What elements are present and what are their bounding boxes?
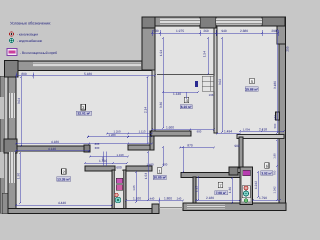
windows: top wall xyxy=(160,19,262,25)
room6 west wall xyxy=(239,137,243,168)
svg-text:162: 162 xyxy=(273,115,277,120)
windows: left wall xyxy=(9,93,15,183)
corridor south wall right xyxy=(126,166,152,171)
svg-text:15.88 м²: 15.88 м² xyxy=(245,87,259,91)
balcony door threshold xyxy=(159,207,183,209)
shaft1 left wall xyxy=(112,170,115,209)
pier top wall middle xyxy=(200,17,216,28)
room 2 area xyxy=(57,177,71,181)
shaft2 outer xyxy=(240,167,253,205)
wall room2/room3 left part xyxy=(16,146,89,151)
top wall xyxy=(142,17,285,26)
dim room7 vertical xyxy=(231,178,233,203)
dim shaft1 right vertical xyxy=(135,172,137,202)
dim top horizontal xyxy=(152,32,278,34)
room 7 number xyxy=(218,182,223,188)
svg-text:800: 800 xyxy=(21,72,27,76)
svg-text:1.113: 1.113 xyxy=(139,130,146,134)
svg-text:1.342: 1.342 xyxy=(273,186,277,193)
dim room3 vertical xyxy=(20,77,22,146)
svg-text:1.242: 1.242 xyxy=(254,181,258,189)
dim corridor small xyxy=(90,156,128,158)
dim bottom middle xyxy=(126,200,183,202)
svg-text:7.08 м²: 7.08 м² xyxy=(216,191,227,195)
svg-text:2.180: 2.180 xyxy=(206,196,214,200)
wall band between room3 and room4 top xyxy=(142,17,155,70)
svg-text:1.140: 1.140 xyxy=(173,92,181,96)
svg-text:500: 500 xyxy=(273,123,277,128)
svg-text:1.94: 1.94 xyxy=(159,50,163,56)
vent box 2 shaft1 xyxy=(116,185,123,191)
svg-text:3.92 м²: 3.92 м² xyxy=(261,171,272,175)
room 3 area xyxy=(76,111,92,115)
dim room1 vertical x163 xyxy=(162,147,164,166)
partition room4/room5 xyxy=(214,26,217,133)
svg-text:- Вентиляционный короб: - Вентиляционный короб xyxy=(20,51,57,55)
svg-text:- водоснабжение: - водоснабжение xyxy=(17,39,42,43)
room7 north wall xyxy=(181,173,240,178)
svg-text:900: 900 xyxy=(197,129,202,133)
window: room3 top wall xyxy=(33,63,141,68)
shaft2 interior xyxy=(242,170,251,202)
panel box room4 xyxy=(195,81,198,87)
svg-text:1.480: 1.480 xyxy=(147,163,154,167)
water circle shaft2 xyxy=(243,191,248,196)
dim room2 vertical xyxy=(19,153,21,203)
svg-text:700: 700 xyxy=(273,170,277,175)
dim ticks door room2 xyxy=(103,152,105,167)
dim room3 horizontal xyxy=(16,75,155,77)
pier top-left of room3 xyxy=(5,61,19,78)
svg-text:260: 260 xyxy=(203,29,209,33)
room 1 number xyxy=(157,168,162,174)
legend water symbol xyxy=(9,38,13,42)
bottom wall step block xyxy=(152,204,159,214)
LEGEND xyxy=(7,20,57,55)
DIMENSION LINES xyxy=(16,30,284,205)
dim room4 bottom xyxy=(152,129,214,131)
svg-text:3.30: 3.30 xyxy=(159,102,163,108)
svg-text:1.80: 1.80 xyxy=(273,153,277,159)
dim room6 top xyxy=(240,130,284,132)
svg-text:600: 600 xyxy=(116,166,122,170)
room 6 area xyxy=(261,171,273,175)
svg-text:20.85 м²: 20.85 м² xyxy=(153,176,167,180)
svg-text:600: 600 xyxy=(163,163,168,167)
svg-text:903: 903 xyxy=(234,144,240,148)
pier left wall middle xyxy=(4,139,17,153)
dim room6 bottom xyxy=(253,199,280,201)
left wall xyxy=(8,62,16,214)
svg-text:940: 940 xyxy=(221,29,227,33)
svg-text:1.600: 1.600 xyxy=(166,126,174,130)
svg-text:1.800: 1.800 xyxy=(164,196,172,200)
svg-text:4.140: 4.140 xyxy=(48,147,56,151)
dim room1 top xyxy=(180,147,214,149)
dim room2 bottom xyxy=(16,204,112,206)
dim room1 vertical xyxy=(147,152,149,200)
svg-text:300: 300 xyxy=(95,146,100,150)
dim corridor xyxy=(85,162,127,164)
apartment interior xyxy=(16,26,280,203)
legend vent symbol xyxy=(7,49,17,56)
room4 bottom wall xyxy=(151,131,191,136)
green circle shaft2 xyxy=(244,199,248,203)
room3 top wall xyxy=(8,61,155,71)
svg-text:4.440: 4.440 xyxy=(58,201,66,205)
legend sewer symbol xyxy=(9,32,13,36)
dim room7 bottom xyxy=(196,199,240,201)
svg-text:1.54: 1.54 xyxy=(203,51,207,57)
svg-text:- канализация: - канализация xyxy=(17,33,38,37)
svg-text:1.280: 1.280 xyxy=(109,133,116,137)
svg-text:530: 530 xyxy=(153,29,159,33)
room 6 number xyxy=(265,163,269,168)
pier top wall right end xyxy=(262,17,285,26)
svg-text:1.975: 1.975 xyxy=(176,29,184,33)
beam line room4 xyxy=(157,74,214,76)
svg-text:1.53: 1.53 xyxy=(144,173,148,179)
dim room4 vertical 2 xyxy=(207,38,209,74)
shaft1 interior xyxy=(115,171,123,208)
dim room4 vertical xyxy=(162,38,164,128)
svg-text:600: 600 xyxy=(101,156,105,161)
darker piers xyxy=(4,17,285,175)
pier wall end near corridor xyxy=(84,145,90,152)
dim room1 vertical x183 xyxy=(182,147,184,172)
wall room2/room3 right part xyxy=(128,145,152,150)
dim room6 vertical xyxy=(257,172,259,197)
room 4 area xyxy=(180,105,192,109)
dim room5 vertical left xyxy=(221,38,223,132)
svg-text:13.35 м²: 13.35 м² xyxy=(57,177,71,181)
corridor south wall left xyxy=(85,166,115,171)
right wall upper xyxy=(277,17,286,44)
svg-text:1.190: 1.190 xyxy=(117,153,124,157)
svg-text:22.01 м²: 22.01 м² xyxy=(77,112,91,116)
water circle shaft1 xyxy=(115,193,118,196)
svg-text:1.494: 1.494 xyxy=(224,130,232,134)
svg-text:Условные обозначения:: Условные обозначения: xyxy=(10,20,51,25)
svg-text:163: 163 xyxy=(209,93,214,97)
svg-text:5.180: 5.180 xyxy=(84,72,92,76)
interior lower strip xyxy=(16,203,183,209)
dim arrow ticks xyxy=(15,29,285,206)
bottom wall right section xyxy=(183,203,286,211)
partition room1/room7 xyxy=(193,177,196,203)
svg-text:2.418: 2.418 xyxy=(259,127,267,131)
dim right of p45 xyxy=(217,133,240,135)
svg-text:3.180: 3.180 xyxy=(273,81,277,89)
ROOM LABELS xyxy=(57,78,273,195)
svg-text:6.10 м²: 6.10 м² xyxy=(181,105,193,109)
svg-text:440: 440 xyxy=(150,196,155,200)
shaft1 right wall xyxy=(123,170,126,209)
svg-text:1.094: 1.094 xyxy=(243,127,250,131)
room 4 number xyxy=(184,97,189,103)
room5 bottom wall xyxy=(237,135,284,139)
svg-text:2.14: 2.14 xyxy=(144,107,148,113)
room 1 area xyxy=(153,175,166,179)
svg-text:4.180: 4.180 xyxy=(51,140,59,144)
dim room5 vertical right xyxy=(276,30,278,133)
sewer circle shaft2 xyxy=(244,186,248,190)
neighbor corner block bottom-left xyxy=(2,193,16,214)
svg-text:1.15: 1.15 xyxy=(195,186,199,192)
room 3 number xyxy=(81,104,86,110)
room 5 number xyxy=(250,78,255,84)
right wall bump xyxy=(276,112,280,120)
window: bottom wall xyxy=(187,205,225,209)
svg-text:1.05: 1.05 xyxy=(132,185,136,191)
pier top wall left end xyxy=(142,17,155,28)
room 7 area xyxy=(215,191,228,195)
fixture box shaft2 xyxy=(242,186,250,198)
dim room4 wardrobe xyxy=(163,91,198,93)
room 2 number xyxy=(62,169,67,175)
dim above wall23 xyxy=(16,143,152,145)
pier near shaft2 xyxy=(229,167,238,175)
connector wall xyxy=(150,131,154,150)
partition room3/room4 xyxy=(152,70,155,131)
dim room3 right vertical xyxy=(147,77,149,143)
dim room7 left vertical xyxy=(197,177,199,200)
dim room6 east vertical xyxy=(276,140,278,200)
bottom wall left section xyxy=(8,209,159,214)
vent box 1 shaft1 xyxy=(116,178,123,183)
svg-text:255: 255 xyxy=(286,46,290,52)
svg-text:870: 870 xyxy=(187,144,193,148)
right wall lower xyxy=(279,44,286,210)
vent box shaft2 xyxy=(243,170,251,176)
DIMENSION TEXTS xyxy=(17,29,290,205)
svg-text:1.30: 1.30 xyxy=(228,187,232,193)
svg-text:3.02: 3.02 xyxy=(218,79,222,85)
wardrobe grid room4 xyxy=(202,76,214,91)
svg-text:240: 240 xyxy=(177,196,182,200)
dim corridor upper row xyxy=(107,133,152,135)
svg-text:1.100: 1.100 xyxy=(133,196,141,200)
svg-text:2.380: 2.380 xyxy=(240,29,248,33)
room 5 area xyxy=(245,87,258,91)
svg-text:1.90: 1.90 xyxy=(17,173,21,179)
svg-text:1.790: 1.790 xyxy=(259,196,267,200)
svg-text:3.04: 3.04 xyxy=(17,98,21,104)
dim below wall23 xyxy=(16,150,89,152)
neighbor wall strip left xyxy=(0,76,4,213)
